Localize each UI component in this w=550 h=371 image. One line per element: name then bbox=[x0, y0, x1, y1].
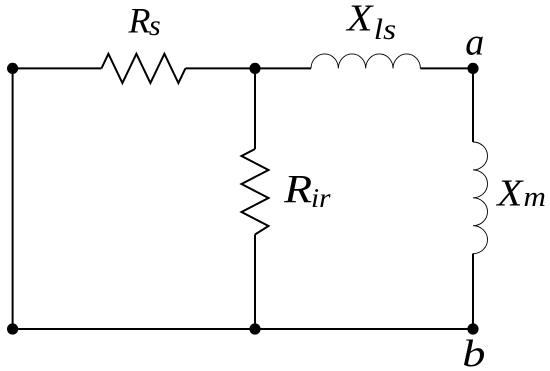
wire top-middle: resistor Rs to inductor Xls through middle node bbox=[185, 67, 311, 69]
resistor Rir body (vertical zigzag) bbox=[242, 149, 269, 235]
wire top-left: left node to resistor Rs bbox=[13, 67, 102, 69]
resistor Rs body (zigzag) bbox=[101, 54, 185, 83]
node bottom-left junction bbox=[7, 323, 18, 334]
node bottom-middle junction bbox=[249, 323, 260, 334]
label Rs bbox=[128, 0, 161, 42]
svg-text:X: X bbox=[495, 172, 524, 214]
svg-text:R: R bbox=[283, 166, 312, 211]
svg-text:ir: ir bbox=[311, 183, 331, 213]
label Rir bbox=[283, 166, 331, 213]
node top-middle junction bbox=[249, 63, 260, 74]
node top-left junction bbox=[7, 63, 18, 74]
svg-text:m: m bbox=[524, 181, 546, 213]
svg-text:s: s bbox=[149, 9, 161, 42]
inductor Xm body (4 humps, vertical) bbox=[473, 142, 488, 254]
node a junction bbox=[467, 63, 478, 74]
inductor Xls body (4 humps) bbox=[311, 54, 420, 69]
wire right vertical upper: node a to inductor Xm bbox=[472, 68, 474, 142]
wire top-right: inductor Xls to node a bbox=[420, 67, 473, 69]
wire bottom horizontal bbox=[13, 328, 473, 330]
svg-text:R: R bbox=[128, 0, 151, 40]
wire right vertical lower: inductor Xm to node b bbox=[472, 254, 474, 329]
wire middle vertical upper: middle node to resistor Rir bbox=[254, 68, 256, 149]
wire left vertical bbox=[12, 68, 14, 329]
svg-text:ls: ls bbox=[374, 13, 396, 46]
wire middle vertical lower: resistor Rir to bottom-middle node bbox=[254, 235, 256, 330]
svg-text:X: X bbox=[345, 0, 374, 40]
svg-text:b: b bbox=[462, 333, 485, 371]
label Xm bbox=[495, 172, 546, 214]
label Xls bbox=[345, 0, 396, 46]
svg-text:a: a bbox=[465, 22, 484, 64]
node b junction bbox=[467, 323, 478, 334]
